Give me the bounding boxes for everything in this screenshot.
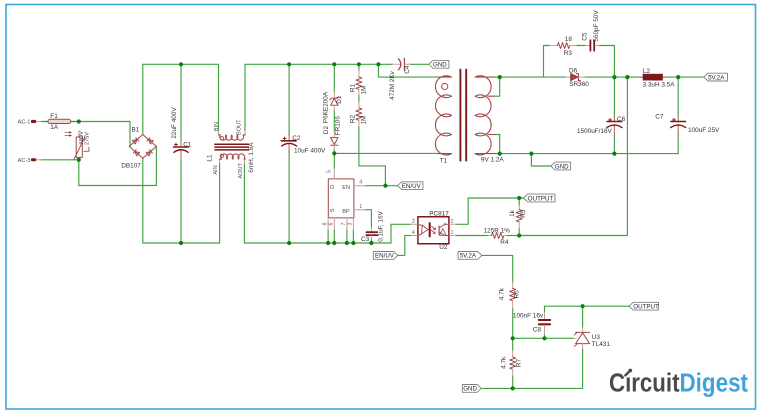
- net flag EN/UV (U1 EN pin): [398, 182, 423, 190]
- resistor R3 18: [550, 36, 577, 57]
- wire secondary jumper bottom: [494, 135, 500, 154]
- svg-text:7: 7: [341, 223, 347, 226]
- wire feedback node to TL431 ref: [513, 337, 574, 339]
- net flag OUTPUT (upper): [524, 194, 556, 202]
- junction MOV top: [77, 119, 81, 123]
- svg-text:L2: L2: [643, 68, 651, 75]
- svg-text:GND: GND: [433, 62, 447, 69]
- svg-text:BOUT: BOUT: [237, 119, 243, 135]
- wire L1 AOUT down: [243, 163, 245, 243]
- svg-text:4: 4: [359, 180, 362, 186]
- shunt regulator U3 TL431: [573, 327, 610, 348]
- svg-text:1A: 1A: [50, 124, 59, 131]
- svg-text:P6KE200A: P6KE200A: [322, 91, 329, 123]
- bridge rectifier B1 DB107: [121, 126, 156, 169]
- svg-text:C7: C7: [655, 113, 664, 120]
- svg-text:3.3uH 3.5A: 3.3uH 3.5A: [643, 82, 676, 89]
- wire 5V,2A flag to R6: [482, 255, 513, 282]
- wire bottom rail segment B: [244, 242, 391, 244]
- wire long drop from output rail to R4 line: [507, 77, 628, 235]
- optocoupler U2 PC817: [411, 210, 456, 250]
- bridge diode bottom-right: [146, 150, 152, 156]
- wire D2 to drain node: [333, 150, 335, 154]
- svg-text:4.7k: 4.7k: [499, 287, 506, 300]
- junction C8 bottom: [542, 336, 546, 340]
- schottky diode D6 SR360: [566, 67, 589, 88]
- pin 4 stub: [411, 235, 418, 237]
- resistor R2 1M: [349, 102, 367, 126]
- bridge diode top-left: [132, 138, 138, 144]
- wire rail to primary feed: [378, 64, 439, 77]
- svg-text:1500uF/16V: 1500uF/16V: [577, 128, 613, 135]
- wire D1 to D2: [333, 110, 335, 131]
- fuse F1 1A: [44, 113, 75, 131]
- wire C2 bottom branch: [288, 151, 290, 243]
- svg-text:FR106: FR106: [334, 116, 341, 136]
- svg-text:472M 2Kv: 472M 2Kv: [389, 70, 396, 100]
- junction C7 top: [676, 75, 680, 79]
- svg-text:R6: R6: [514, 290, 521, 299]
- svg-text:GND: GND: [555, 163, 569, 170]
- wire secondary top to D6: [494, 76, 566, 78]
- LED inside opto: [418, 224, 422, 225]
- svg-text:0.1uF, 16V: 0.1uF, 16V: [377, 210, 384, 241]
- resistor R6 4.7k: [499, 282, 521, 308]
- svg-text:D6: D6: [569, 67, 578, 74]
- junction drain node: [332, 151, 336, 155]
- junction C2 top: [287, 62, 291, 66]
- svg-text:C3: C3: [361, 236, 370, 243]
- junction C1 top: [179, 62, 183, 66]
- diode D2 FR106: [323, 116, 341, 150]
- junction R5 bottom: [517, 233, 521, 237]
- svg-text:DB107: DB107: [121, 163, 141, 170]
- wire C4 right to GND flag: [410, 63, 429, 65]
- svg-text:C8: C8: [533, 327, 542, 334]
- net flag GND (feedback): [462, 385, 481, 393]
- net flag 5V,2A (feedback): [458, 252, 482, 260]
- svg-text:S: S: [330, 208, 336, 212]
- svg-text:2: 2: [451, 219, 454, 225]
- svg-text:100nF 16v: 100nF 16v: [513, 312, 544, 319]
- capacitor C2 10uF 400V: [281, 134, 326, 155]
- wire L1 BIN up: [218, 64, 220, 131]
- svg-text:D: D: [330, 185, 336, 189]
- wire output sense line to OUTPUT flag: [545, 305, 630, 307]
- junction MOV bottom: [77, 158, 81, 162]
- svg-text:1M: 1M: [361, 116, 368, 125]
- bridge diode bottom-left: [133, 150, 139, 156]
- svg-text:U2: U2: [439, 244, 448, 251]
- svg-text:AOUT: AOUT: [238, 162, 244, 178]
- svg-text:R2: R2: [349, 114, 356, 123]
- junction C1 bottom: [179, 241, 183, 245]
- wire EN pin to EN/UV flag: [365, 185, 397, 187]
- svg-text:TL431: TL431: [592, 341, 611, 348]
- svg-text:PC817: PC817: [429, 210, 449, 217]
- svg-text:C6: C6: [617, 116, 626, 123]
- svg-text:Cırcuit: Cırcuit: [609, 370, 680, 398]
- svg-text:C1: C1: [183, 142, 192, 149]
- wire C8 bottom leg: [544, 334, 546, 338]
- CircuitDigest logo: [609, 369, 748, 398]
- capacitor C6 1500uF/16V: [577, 115, 626, 135]
- wire drain node to transformer primary bottom: [334, 152, 437, 154]
- terminal AC-1: [18, 120, 41, 126]
- svg-text:BIN: BIN: [214, 122, 220, 131]
- svg-text:OUTPUT: OUTPUT: [633, 304, 659, 311]
- wire C6 top branch: [613, 77, 615, 115]
- wire C1 top branch: [180, 64, 182, 141]
- svg-text:275V: 275V: [84, 132, 90, 145]
- svg-text:10uF 400V: 10uF 400V: [294, 148, 326, 155]
- svg-text:8: 8: [322, 223, 328, 226]
- junction R1 top: [357, 62, 361, 66]
- terminal AC-3: [18, 158, 41, 164]
- source pin stubs: [328, 218, 353, 230]
- pin 4 EN stub: [354, 185, 365, 187]
- wire BP pin to C3: [365, 210, 371, 228]
- switcher IC U1: [322, 169, 365, 230]
- svg-text:BP: BP: [342, 209, 350, 215]
- capacitor C5 560pF 50V: [582, 10, 601, 51]
- svg-text:AC-1: AC-1: [18, 120, 31, 126]
- wire L2 to C7 node and 5V,2A flag: [666, 76, 704, 78]
- svg-text:R4: R4: [500, 239, 509, 246]
- wire R7 bottom: [512, 376, 514, 389]
- wire fuse to bridge, via MOV top node: [71, 121, 130, 123]
- wire top DC rail segment A: [143, 63, 219, 65]
- wire R7 top: [512, 338, 514, 350]
- wire AC-1 to fuse: [41, 121, 48, 123]
- wire GND tap on secondary rail: [531, 154, 550, 166]
- wire rail to R1 top: [358, 64, 360, 70]
- junction snubber right / C6: [612, 75, 616, 79]
- wire TL431 anode down to GND rail: [481, 349, 582, 389]
- wire R2 bottom to EN node: [359, 126, 386, 185]
- svg-text:D1: D1: [336, 95, 343, 104]
- pin 5 drain stub: [333, 169, 335, 179]
- net flag GND (Y-cap): [429, 60, 449, 68]
- svg-text:C4: C4: [404, 65, 411, 74]
- secondary tap stubs: [488, 96, 494, 134]
- wire R3 to C5: [576, 45, 585, 47]
- wire bridge - output down: [142, 158, 144, 243]
- svg-text:125R 1%: 125R 1%: [484, 228, 511, 235]
- TVS diode D1 P6KE200A: [322, 91, 343, 123]
- svg-text:B1: B1: [132, 126, 140, 133]
- wire C6 bottom branch: [613, 135, 615, 154]
- pin 3 stub: [411, 223, 418, 225]
- wire C2 top branch: [288, 64, 290, 135]
- junction primary feed: [376, 62, 380, 66]
- net flag EN/UV (opto pin 4): [373, 252, 398, 260]
- wire MOV bottom down: [78, 160, 80, 186]
- junction R7 bottom: [511, 386, 515, 390]
- resistor R7 4.7k: [500, 351, 522, 376]
- svg-text:4.7k: 4.7k: [500, 356, 507, 369]
- junction C3 bottom: [369, 241, 373, 245]
- wire drain node down to U1 pin5: [333, 153, 335, 168]
- wire C5 to snubber right leg: [599, 46, 614, 78]
- common-mode choke L1 6mH 1.6A: [207, 119, 255, 179]
- svg-text:GND: GND: [463, 386, 477, 393]
- varistor MOV 275V: [65, 131, 90, 160]
- wire rail to D1 top: [333, 64, 335, 91]
- svg-text:1: 1: [451, 230, 454, 236]
- svg-text:1k: 1k: [509, 209, 516, 217]
- phototransistor inside opto: [440, 224, 449, 227]
- light arrows: [432, 226, 436, 229]
- resistor R5 1k: [509, 206, 527, 229]
- svg-text:3: 3: [412, 219, 415, 225]
- junction EN node: [383, 184, 387, 188]
- junction C6 bottom: [612, 152, 616, 156]
- bridge diode top-right: [147, 138, 153, 144]
- svg-text:C2: C2: [292, 135, 301, 142]
- svg-text:R7: R7: [515, 358, 522, 367]
- svg-text:R3: R3: [564, 50, 573, 57]
- svg-text:AC-3: AC-3: [18, 158, 31, 164]
- wire C1 bottom branch: [180, 161, 182, 244]
- resistor R1 1M: [349, 71, 367, 95]
- pin 2 stub: [449, 223, 456, 225]
- capacitor C4 472M 2Kv: [389, 58, 411, 99]
- svg-text:EN/UV: EN/UV: [402, 183, 422, 190]
- svg-text:6mH, 1.6A: 6mH, 1.6A: [248, 142, 255, 173]
- wire bridge + output up to DC rail: [142, 64, 144, 134]
- svg-text:22uF 400V: 22uF 400V: [171, 107, 178, 139]
- wire secondary jumper top: [494, 77, 500, 96]
- junction output drop: [625, 75, 629, 79]
- svg-text:4: 4: [412, 230, 415, 236]
- svg-text:18: 18: [565, 36, 573, 43]
- net flag OUTPUT (lower): [629, 302, 659, 310]
- svg-text:AIN: AIN: [213, 165, 219, 174]
- svg-text:L1: L1: [207, 154, 214, 162]
- capacitor C8 100nF 16v: [513, 312, 550, 334]
- svg-text:5: 5: [327, 170, 333, 173]
- wire rail up to opto pin3: [391, 224, 411, 243]
- pin 1 BP stub: [354, 209, 365, 211]
- svg-text:OUTPUT: OUTPUT: [528, 195, 554, 202]
- svg-text:U3: U3: [592, 334, 601, 341]
- wire TL431 cathode up: [582, 306, 584, 327]
- core: [460, 70, 466, 161]
- svg-text:C5: C5: [582, 32, 589, 41]
- svg-text:F1: F1: [50, 113, 58, 120]
- junction D1 top: [332, 62, 336, 66]
- transformer T1 9V 1.2A: [435, 70, 504, 165]
- junction U1 source pins: [326, 241, 330, 245]
- wire bottom rail segment A: [143, 242, 220, 244]
- svg-text:SR360: SR360: [569, 81, 589, 88]
- svg-text:6: 6: [329, 223, 335, 226]
- wire R5 bottom: [518, 229, 520, 236]
- svg-text:3: 3: [348, 223, 354, 226]
- wire R6 bottom to feedback node: [512, 308, 514, 338]
- capacitor C1 22uF 400V: [171, 107, 192, 161]
- wire R5 top: [518, 198, 520, 206]
- wire EN/UV flag to opto pin4: [398, 236, 411, 256]
- resistor R4 125R 1%: [484, 228, 511, 246]
- svg-text:100uF 25V: 100uF 25V: [688, 127, 720, 134]
- svg-text:D2: D2: [323, 125, 330, 134]
- wire D6 to L2 node: [585, 76, 639, 78]
- wire up to bridge AC2 vertex: [155, 146, 157, 185]
- wire U1 source pins to rail: [327, 230, 329, 243]
- capacitor C3 0.1uF 16V: [361, 210, 384, 243]
- net flag 5V,2A (top right): [704, 73, 728, 81]
- junction feedback node R6/R7: [511, 336, 515, 340]
- wire L1 AIN down: [219, 163, 221, 243]
- wire secondary bottom rail: [494, 153, 678, 155]
- wire C3 bottom to rail: [370, 239, 372, 243]
- junction GND tap: [529, 152, 533, 156]
- svg-text:EN: EN: [342, 185, 350, 191]
- svg-text:EN/UV: EN/UV: [375, 253, 395, 260]
- junction TL431 cathode sense: [581, 304, 585, 308]
- wire across to bridge AC2: [79, 185, 157, 187]
- junction C2 bottom: [287, 241, 291, 245]
- wire AC-3 to MOV bottom node: [41, 159, 79, 161]
- junction secondary bottom tap: [498, 152, 502, 156]
- svg-text:1: 1: [359, 204, 362, 210]
- secondary winding: [475, 76, 494, 155]
- junction secondary top tap: [498, 75, 502, 79]
- wire R1 to R2: [358, 95, 360, 102]
- wire C7 bottom branch: [677, 135, 679, 154]
- wire opto pin2 up to OUTPUT node: [456, 198, 524, 224]
- primary winding: [435, 76, 451, 155]
- svg-text:1M: 1M: [361, 86, 368, 95]
- wire snubber left leg: [544, 46, 550, 78]
- svg-text:5V,2A: 5V,2A: [708, 74, 725, 81]
- wire C7 top branch: [677, 77, 679, 115]
- svg-text:9V 1.2A: 9V 1.2A: [481, 157, 504, 164]
- svg-text:T1: T1: [440, 158, 448, 165]
- wire top DC rail segment B: [245, 63, 393, 65]
- capacitor C7 100uF 25V: [655, 113, 720, 134]
- wire L1 BOUT up: [244, 64, 246, 131]
- wire C8 top leg: [544, 306, 546, 312]
- wire opto pin1 to R4: [456, 235, 488, 237]
- pin 1 stub: [449, 235, 456, 237]
- svg-text:R5: R5: [520, 209, 527, 218]
- primary phase dot: [442, 83, 448, 89]
- inductor L2 3.3uH 3.5A: [639, 68, 675, 89]
- net flag GND (secondary rail): [551, 162, 571, 170]
- svg-text:Digest: Digest: [680, 370, 749, 398]
- wire down to bridge AC1 vertex: [129, 122, 131, 147]
- svg-text:5V,2A: 5V,2A: [460, 253, 477, 260]
- svg-text:560pF 50V: 560pF 50V: [593, 10, 600, 42]
- junction R5 top: [517, 196, 521, 200]
- svg-text:R1: R1: [349, 83, 356, 92]
